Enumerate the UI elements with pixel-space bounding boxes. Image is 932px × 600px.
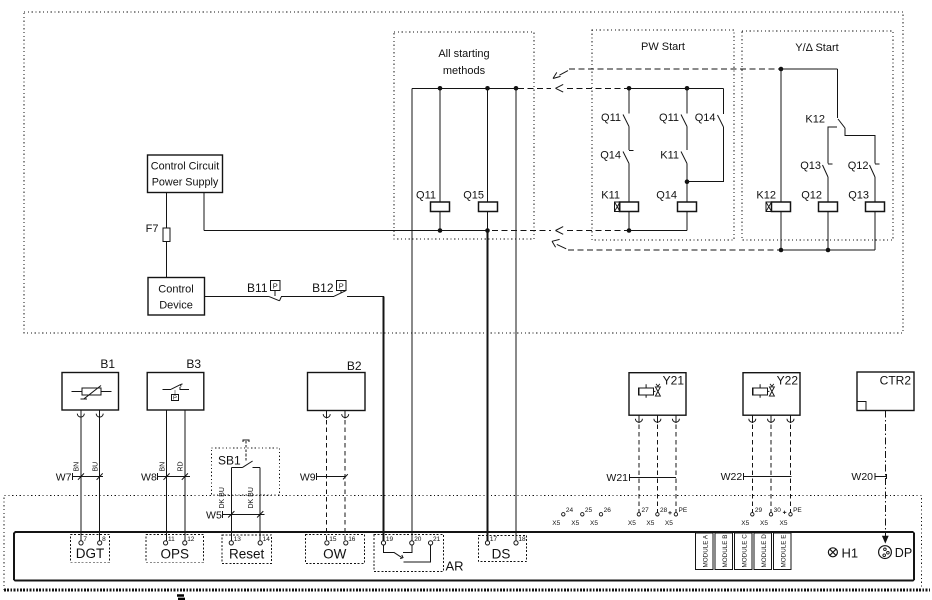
svg-text:19: 19 [386,536,394,543]
svg-text:Q11: Q11 [601,112,621,124]
svg-text:OPS: OPS [161,546,190,561]
svg-text:Q15: Q15 [463,190,484,202]
node on top rail x487 [485,86,490,91]
module slot A [696,533,714,569]
svg-text:24: 24 [566,507,574,514]
wire power supply to fuse [166,193,168,229]
terminal group DS dashed box [479,535,527,561]
solenoid valve Y22 box [743,373,800,416]
svg-text:11: 11 [168,536,175,543]
terminal 14 [258,541,262,545]
wire between Q11 and K11 contacts [686,127,688,151]
relay AR dashed box [374,535,444,572]
svg-text:DK BU: DK BU [219,487,226,508]
svg-text:AR: AR [446,559,464,574]
module slot D [754,533,772,569]
wire Q11 coil top [439,88,441,202]
svg-text:Q13: Q13 [800,160,821,172]
svg-text:RD: RD [178,461,185,471]
svg-text:16: 16 [348,536,356,543]
svg-text:K11: K11 [660,150,679,162]
svg-text:W21: W21 [606,472,628,484]
svg-text:Y22: Y22 [777,374,799,388]
svg-text:17: 17 [490,536,498,543]
contactor coil Q12 [819,202,838,212]
wire Q12 coil bottom [827,212,829,251]
connector hook B1 pin1 [77,414,84,418]
wire CTR2 dash-dot to DP [884,411,886,537]
svg-text:BN: BN [74,462,81,472]
temperature sensor B1 box [62,373,119,411]
timer coil K12 [772,202,791,212]
svg-text:PE: PE [793,507,802,514]
plug terminal X5 30 [769,513,772,516]
wire B1 pin2 to terminal 8 [99,410,101,541]
arrowhead into DP [882,536,889,544]
Y/Delta Start dotted box [742,31,893,240]
terminal 21 [429,541,433,545]
module slot E [774,533,792,569]
contact K12 changeover [837,69,839,118]
wire B2 pin2 dashed to terminal 16 [344,420,346,541]
terminal group OW dashed box [305,535,364,564]
svg-text:Power Supply: Power Supply [152,177,219,189]
wire Q15 coil top [487,88,489,202]
svg-text:Reset: Reset [229,547,265,562]
wire Y22 pin3 dashed to X5 [790,425,792,513]
connector hook B2 pin2 [342,414,349,418]
wire B3 pin1 to terminal 11 [166,410,168,541]
svg-text:15: 15 [329,536,337,543]
wire SB1 right to terminal 14 [259,467,261,540]
cable W5 marker [223,511,265,518]
terminal group Reset dashed box [222,535,272,564]
wire B3 pin2 to terminal 12 [184,410,186,541]
svg-text:W7: W7 [56,471,72,483]
svg-text:Y/Δ Start: Y/Δ Start [795,42,838,54]
wire Y21 pin1 dashed to X5 [638,425,640,513]
pushbutton contact SB1 [231,466,260,468]
svg-text:CTR2: CTR2 [880,374,912,388]
svg-text:W5: W5 [206,509,222,521]
bottom device dotted frame [4,496,922,591]
terminal 18 [514,541,518,545]
plug terminal X5 PE [674,513,677,516]
wire Y22 pin2 dashed to X5 [770,425,772,513]
wire control device to B11 [205,295,269,297]
terminal 17 [485,541,489,545]
cable W20 marker [875,473,887,480]
arrow into Y-Delta top rail [553,71,568,79]
connector hook B1 pin2 [96,414,103,418]
node Y-Delta bottom x781 [779,248,784,253]
plug terminal X5 28 [656,513,659,516]
svg-text:W20: W20 [851,471,873,483]
wire K12 coil bottom [780,212,782,251]
pressure switch B12 P actuator [337,281,347,291]
wire K12 right throw [845,128,875,164]
svg-text:All starting: All starting [438,48,489,60]
terminal 15 [325,541,329,545]
timer coil K12 branch wire [780,69,782,202]
solenoid valve Y21 box [629,373,686,416]
plug terminal X5 25 [581,513,584,516]
wire: left branch down to terminal 20 [411,88,413,540]
svg-text:X5: X5 [590,520,598,527]
svg-text:K12: K12 [756,190,776,202]
plug terminal X5 27 [637,513,640,516]
svg-text:27: 27 [642,507,650,514]
connector hook Y21 pin3 [672,419,679,423]
module slot C [735,533,753,569]
svg-text:B1: B1 [100,357,115,371]
svg-text:PE: PE [679,507,688,514]
cable W7 marker [72,473,103,480]
plug terminal X5 24 [562,513,565,516]
cable W9 marker [316,473,346,480]
wire Y21 pin2 dashed to X5 [656,425,658,513]
svg-text:P: P [339,282,344,291]
svg-text:30: 30 [774,507,782,514]
Control Circuit Power Supply box [148,155,223,193]
svg-text:Q14: Q14 [695,112,716,124]
svg-text:X5: X5 [780,520,788,527]
svg-text:F7: F7 [146,223,159,235]
arrow into Y-Delta bottom rail [552,239,566,248]
terminal group OPS dashed box [146,535,204,563]
wire Q11 coil bottom [439,212,441,231]
svg-text:MODULE B: MODULE B [722,535,729,568]
svg-text:X5: X5 [665,520,673,527]
bottom heavy dashed border [4,589,930,592]
svg-text:P: P [173,396,177,402]
wire: dashed neutral link right [492,230,551,232]
terminal strip solid box [14,532,914,581]
wire Y22 pin1 dashed to X5 [751,425,753,513]
svg-text:Q14: Q14 [600,150,621,162]
node on top rail x440 [438,86,443,91]
svg-text:DP: DP [895,546,912,560]
PE mark group1 [668,511,671,514]
node Y-Delta bottom x828 [826,248,831,253]
svg-text:MODULE D: MODULE D [761,534,768,568]
plug terminal X5 29 [751,513,754,516]
wire: heavy run down to terminal 19 [383,296,385,540]
svg-text:X5: X5 [571,520,579,527]
node neutral rail x488 [485,228,490,233]
arrow into neutral rail [556,227,564,235]
wire between Q11 and Q14 contacts [628,127,630,151]
svg-text:B3: B3 [186,357,201,371]
wire SB1 left to terminal 13 [230,467,232,540]
svg-text:DGT: DGT [76,546,105,561]
CTR2 corner square [857,402,866,411]
wire: dashed neutral link to PW [567,230,629,232]
svg-text:W9: W9 [300,471,316,483]
wire: dashed rail to Y-Delta box [569,68,779,70]
svg-text:BU: BU [92,462,99,472]
wire: heavy run down to DS terminal 17 [487,231,489,541]
svg-text:X5: X5 [552,520,560,527]
connector hook Y21 pin2 [654,419,661,423]
terminal group DGT dashed box [71,535,110,563]
terminal 20 [410,541,414,545]
contact Q13 NC [828,163,833,165]
contactor coil Q13 [866,202,885,212]
pressure switch B11 P actuator [271,281,281,291]
wire: neutral rail from power supply [204,230,488,232]
connector hook Y22 pin1 [749,419,756,423]
wire to Q12 coil [827,177,829,202]
svg-text:Q12: Q12 [848,160,869,172]
reset pushbutton SB1 dotted box [212,448,280,495]
svg-text:21: 21 [433,536,441,543]
svg-text:OW: OW [323,547,347,562]
svg-text:18: 18 [518,536,526,543]
svg-text:W8: W8 [141,471,157,483]
node PW bottom x629 [627,228,632,233]
svg-text:PW Start: PW Start [641,41,685,53]
valve symbol inside Y21 [639,388,654,395]
svg-text:29: 29 [755,507,763,514]
wire to Q13 coil [874,177,876,202]
relay AR changeover contact [384,545,394,552]
valve symbol inside Y22 [753,388,768,395]
svg-text:B2: B2 [347,359,362,373]
control circuit outer dotted frame [24,12,903,333]
pushbutton actuator [242,440,249,442]
wire: Y-Delta top rail solid [779,68,838,70]
pressure switch B12 contact [334,291,346,297]
pressure switch B11 contact [269,296,282,301]
svg-text:W22: W22 [721,471,743,483]
wire PW right branch down and left [687,127,724,182]
svg-text:14: 14 [263,536,271,543]
node on top rail x516 [514,86,519,91]
svg-text:26: 26 [604,507,612,514]
svg-text:MODULE E: MODULE E [781,535,788,568]
svg-text:MODULE C: MODULE C [742,534,749,568]
svg-text:Q13: Q13 [848,190,869,202]
node Y-Delta rail x781 [779,67,784,72]
contactor coil Q14 [678,202,697,212]
wire: top rail of all-starting box [412,87,516,89]
contactor coil Q15 [479,202,498,212]
node PW rail x687 [685,86,690,91]
contact Q14 NC PW left [629,150,634,152]
wire: PW bottom rail [629,230,687,232]
svg-text:X5: X5 [760,520,768,527]
cable W21 marker [629,474,676,481]
contact Q14 PW right [723,88,725,114]
fuse F7 [163,228,170,242]
node PW rail x629 [627,86,632,91]
svg-text:MODULE A: MODULE A [703,534,710,567]
Control Device box [148,278,205,316]
terminal 13 [229,541,233,545]
pressure sensor B3 box [147,373,204,411]
controller CTR2 box [857,372,914,411]
terminal 11 [164,541,168,545]
svg-text:X5: X5 [628,520,636,527]
svg-text:Y21: Y21 [663,374,685,388]
plug terminal X5 26 [599,513,602,516]
svg-text:28: 28 [660,507,668,514]
PE mark group2 [783,511,786,514]
svg-text:Device: Device [159,300,193,312]
wire Q15 coil bottom [487,212,489,231]
svg-text:K11: K11 [601,190,620,202]
wire: dashed Y-Delta bottom rail [568,249,779,251]
svg-text:B12: B12 [312,281,334,295]
svg-text:X5: X5 [646,520,654,527]
connector hook Y21 pin1 [635,419,642,423]
svg-text:H1: H1 [842,545,859,560]
cable W8 marker [158,473,190,480]
wire: Y-Delta bottom rail solid [779,249,875,251]
bottom-left cut-off mark [177,596,185,599]
contact K11 PW middle [681,152,687,164]
svg-text:methods: methods [443,65,486,77]
svg-text:SB1: SB1 [218,454,241,468]
wire K12 left throw [828,127,837,164]
timer coil K11 [620,202,639,212]
node neutral rail x440 [438,228,443,233]
wire fuse to control device [166,242,168,278]
terminal 16 [344,541,348,545]
module slot B [715,533,733,569]
wire: dashed link rail top right [518,87,551,89]
thermistor symbol inside B1 [72,391,112,393]
plug terminal X5 PE [789,513,792,516]
wire Y21 pin3 dashed to X5 [675,425,677,513]
wire Q14 coil bottom [686,212,688,231]
contact Q12 NC [875,163,880,165]
svg-text:25: 25 [585,507,593,514]
wire K11 coil bottom [628,212,630,231]
svg-text:Q11: Q11 [659,112,679,124]
wire B12 to AR drop [347,295,384,297]
All starting methods dotted box [394,32,534,239]
terminal 8 [98,541,102,545]
svg-text:Control Circuit: Control Circuit [151,161,219,173]
svg-text:DS: DS [492,546,511,561]
cable W22 marker [744,473,792,480]
wire B11 to B12 [281,295,334,297]
svg-text:BN: BN [159,462,166,472]
svg-text:Q14: Q14 [656,190,677,202]
terminal 19 [381,541,385,545]
wire: run down to DS terminal 18 [515,88,517,540]
svg-text:8: 8 [102,536,106,543]
svg-text:Q11: Q11 [416,190,436,202]
wire: dashed link to PW rail [567,87,629,89]
wire Q13 coil bottom [874,212,876,251]
diagnostic plug DP [879,546,892,559]
connector hook B2 pin1 [323,414,330,418]
indicator lamp H1 [828,548,837,557]
terminal 12 [183,541,187,545]
wire B1 pin1 to terminal 7 [80,410,82,541]
svg-text:7: 7 [83,536,87,543]
svg-text:X5: X5 [741,520,749,527]
connector hook Y22 pin2 [768,419,775,423]
svg-text:Control: Control [158,284,193,296]
contact Q11 PW left [628,88,630,113]
wire: PW top rail [629,87,724,89]
contactor coil Q11 [431,202,450,212]
arrow into all-starting top rail [556,84,564,92]
wire power supply to neutral rail [203,193,205,231]
svg-text:DK BU: DK BU [248,487,255,508]
wire B2 pin1 dashed to terminal 15 [326,420,328,541]
svg-text:B11: B11 [247,281,268,295]
terminal 7 [79,541,83,545]
pressure contact symbol inside B3 [163,387,190,389]
svg-text:P: P [273,282,278,291]
wire to K11 coil [628,164,630,203]
contact Q11 PW middle [686,88,688,113]
PW Start dotted box [592,30,734,240]
svg-text:20: 20 [414,536,422,543]
oil level sensor B2 box [308,373,366,411]
wire to node and Q14 coil [686,164,688,203]
svg-text:13: 13 [234,536,242,543]
svg-text:12: 12 [187,536,195,543]
svg-text:Q12: Q12 [801,190,822,202]
connector hook Y22 pin3 [787,419,794,423]
node PW middle x687 [685,179,690,184]
svg-text:K12: K12 [805,114,825,126]
